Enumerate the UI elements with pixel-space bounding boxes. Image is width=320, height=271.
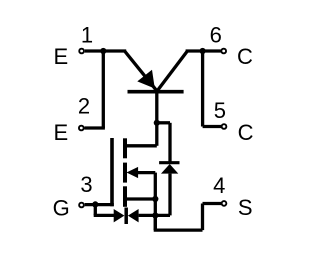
terminal pin 2 circle (E) [79,126,84,131]
svg-text:G: G [53,195,70,220]
wire C6 horizontal [186,49,221,52]
wire diode cathode vertical [168,123,171,163]
node junction source/protection wire [152,212,158,218]
wire S horizontal [203,202,222,205]
MOSFET M1 channel segment bottom [123,186,127,207]
terminal pin 6 circle (C) [221,49,226,54]
MOSFET M1 drain lead [125,144,157,147]
diode D1 triangle (pointing up) [161,164,178,174]
MOSFET M1 source lead [125,197,155,200]
terminal pin 5 circle (C) [222,124,227,129]
MOSFET M1 body lead [136,171,155,174]
MOSFET M1 body arrow (pointing into channel) [126,167,138,178]
wire source to S bottom vertical [154,215,157,230]
wire protection right horizontal [139,214,170,217]
diode D2/D3 shared cathode bar [124,208,128,225]
wire C5 horizontal [203,125,222,128]
transistor Q1 collector lead [157,51,187,91]
wire source vertical [154,173,157,231]
wire E1 horizontal [85,49,126,52]
svg-text:C: C [238,120,254,145]
node junction E1/E2 [100,48,106,54]
wire protection left horizontal [94,214,115,217]
svg-text:E: E [54,120,69,145]
wire diode anode vertical [168,174,171,216]
wire diode branch horizontal [157,121,170,124]
node junction source lead [152,196,158,202]
wire E2 horizontal [85,126,105,129]
wire C5 vertical [201,51,204,127]
svg-text:1: 1 [81,23,93,48]
svg-text:2: 2 [78,93,90,118]
node junction C6/C5 [200,48,206,54]
svg-text:C: C [237,44,253,69]
svg-text:S: S [238,195,253,220]
node junction base/diode branch [154,120,160,126]
transistor Q1 emitter lead [125,51,157,90]
svg-text:4: 4 [213,173,225,198]
svg-text:E: E [54,44,69,69]
MOSFET M1 channel segment middle [123,163,127,183]
wire S bottom horizontal [154,228,203,231]
transistor Q1 emitter arrow (PNP, pointing to base bar) [137,70,155,89]
svg-text:5: 5 [214,98,226,123]
MOSFET M1 channel segment top [123,138,127,158]
node junction gate/protection [92,201,98,207]
terminal pin 1 circle (E) [79,49,84,54]
wire S right vertical [201,204,204,231]
terminal pin 3 circle (G) [79,203,84,208]
svg-text:6: 6 [210,23,222,48]
transistor Q1 base bar [128,90,184,94]
wire base to drain vertical [155,92,158,146]
terminal pin 4 circle (S) [222,201,227,206]
svg-text:3: 3 [80,172,92,197]
MOSFET M1 gate line [110,138,114,206]
wire protection branch vertical [94,204,97,215]
wire G horizontal [85,203,114,206]
diode D1 cathode bar [159,161,179,164]
diode D3 triangle (pointing left) [128,209,139,222]
wire E2 vertical [102,51,105,128]
diode D2 triangle (pointing right) [114,209,125,222]
